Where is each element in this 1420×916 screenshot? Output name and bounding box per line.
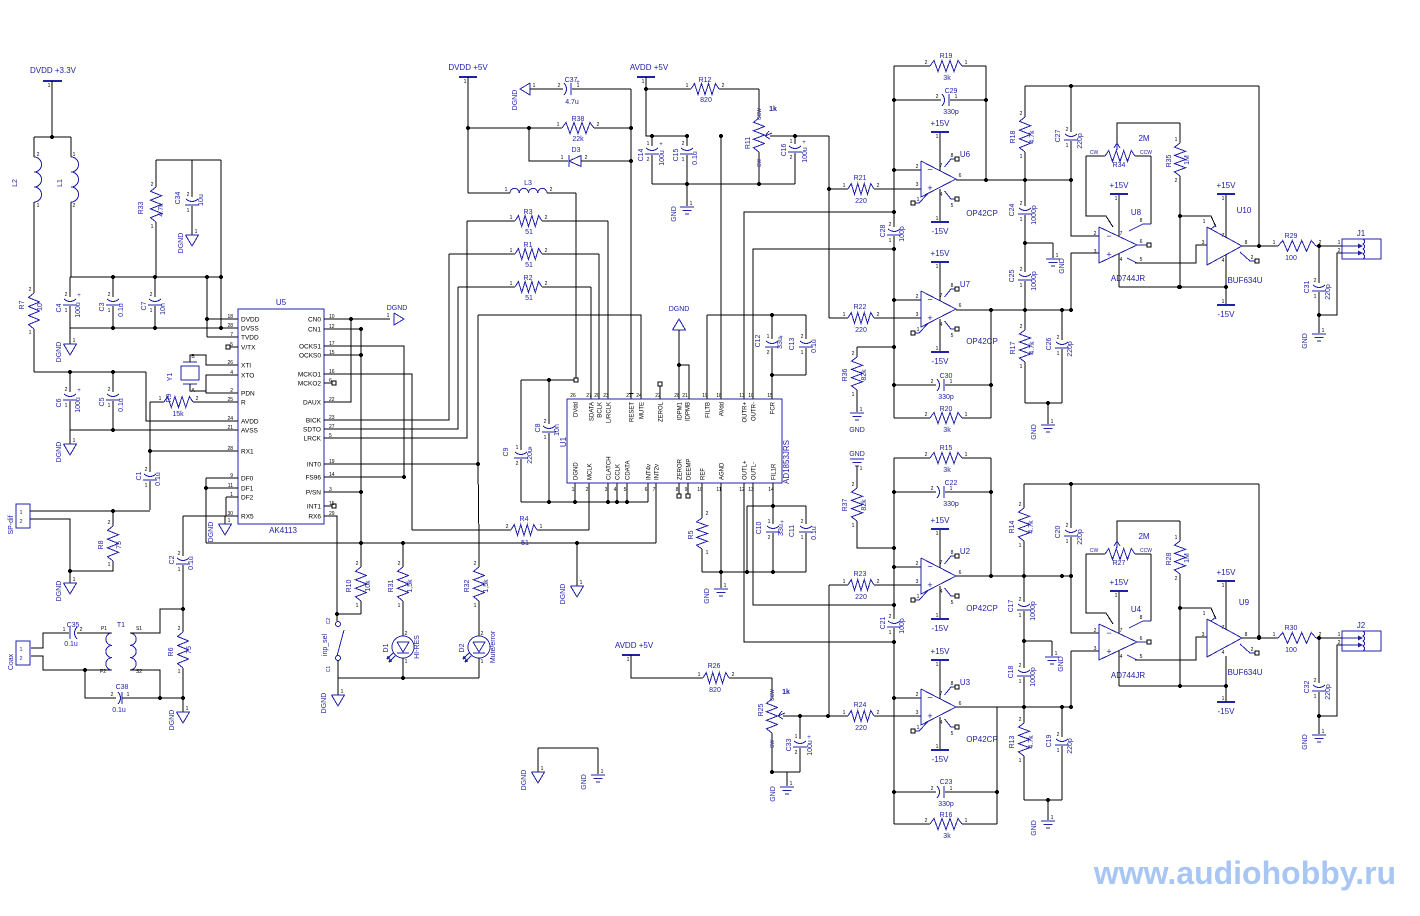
svg-text:AVSS: AVSS <box>241 428 259 435</box>
svg-text:2: 2 <box>889 614 892 620</box>
svg-text:BICK: BICK <box>306 418 322 425</box>
svg-text:AD1853JRS: AD1853JRS <box>782 440 791 484</box>
svg-text:L/RCLK: L/RCLK <box>607 402 613 423</box>
wire wiper to R35 <box>1117 123 1180 143</box>
svg-text:Coax: Coax <box>8 653 15 670</box>
wire U6 -in <box>894 169 921 171</box>
capacitor C17 <box>1023 576 1025 602</box>
svg-text:1: 1 <box>790 781 793 787</box>
svg-text:+: + <box>802 140 806 146</box>
svg-text:1: 1 <box>187 208 190 214</box>
svg-text:2: 2 <box>550 187 553 193</box>
svg-text:820: 820 <box>709 687 721 694</box>
wire bus PLL filter <box>156 159 221 161</box>
wire BW pin U9 <box>1180 608 1216 619</box>
svg-text:R34: R34 <box>1113 162 1126 169</box>
svg-text:GND: GND <box>1302 734 1309 750</box>
svg-text:+: + <box>77 388 81 394</box>
svg-text:GND: GND <box>704 588 711 604</box>
svg-text:+: + <box>1106 250 1111 260</box>
svg-text:1: 1 <box>1273 240 1276 246</box>
svg-text:1: 1 <box>510 215 513 221</box>
svg-text:+: + <box>807 735 811 741</box>
capacitor C38 <box>85 670 116 698</box>
wire IDPMB <box>679 365 689 399</box>
svg-text:1: 1 <box>936 613 939 619</box>
wire <box>220 160 222 328</box>
svg-text:1000p: 1000p <box>1030 667 1037 687</box>
svg-text:DEEMP: DEEMP <box>687 459 693 480</box>
wire mode select column <box>360 329 362 567</box>
svg-text:2: 2 <box>877 710 880 716</box>
svg-text:CW: CW <box>1090 548 1099 554</box>
resistor R2 <box>458 286 515 288</box>
svg-text:1: 1 <box>965 452 968 458</box>
svg-text:DAUX: DAUX <box>303 400 322 407</box>
svg-text:2: 2 <box>801 519 804 525</box>
potentiometer R34 <box>1086 155 1105 157</box>
resistor R28 <box>1179 521 1181 541</box>
resistor R8 <box>112 511 114 526</box>
resistor R5 <box>701 483 703 518</box>
svg-text:1: 1 <box>843 710 846 716</box>
svg-text:Mute/error: Mute/error <box>490 630 497 663</box>
svg-text:33u: 33u <box>778 524 785 536</box>
svg-text:4: 4 <box>1120 257 1123 263</box>
power -15V <box>1225 264 1227 305</box>
svg-text:1: 1 <box>37 203 40 209</box>
svg-text:2: 2 <box>889 222 892 228</box>
wire secondary S2 <box>130 670 160 698</box>
svg-text:1: 1 <box>580 580 583 586</box>
resistor R18 <box>1024 86 1026 117</box>
inductor L1 <box>70 137 72 157</box>
svg-text:J2: J2 <box>1357 621 1366 630</box>
svg-text:1: 1 <box>73 577 76 583</box>
ground GND <box>1024 640 1052 642</box>
wire MCLK column <box>588 483 590 530</box>
wire secondary S1 <box>130 609 183 633</box>
wire J1 pin2 <box>1319 253 1342 315</box>
wire ground bus <box>652 183 795 185</box>
svg-text:CCW: CCW <box>1140 548 1152 554</box>
svg-text:+: + <box>927 580 932 590</box>
svg-text:2: 2 <box>1020 267 1023 273</box>
svg-text:2: 2 <box>516 461 519 467</box>
svg-text:RESET: RESET <box>630 402 636 422</box>
svg-text:2: 2 <box>852 351 855 357</box>
svg-text:R24: R24 <box>854 702 867 709</box>
svg-text:2: 2 <box>145 467 148 473</box>
svg-text:R33: R33 <box>138 201 145 214</box>
svg-text:2: 2 <box>108 387 111 393</box>
wire <box>990 310 992 418</box>
svg-text:2: 2 <box>544 419 547 425</box>
svg-text:R3: R3 <box>524 209 533 216</box>
wire FILTB <box>706 315 708 399</box>
svg-text:1: 1 <box>1019 679 1022 685</box>
svg-text:100u: 100u <box>659 150 666 166</box>
svg-text:1: 1 <box>706 550 709 556</box>
svg-text:15k: 15k <box>172 411 184 418</box>
wire RX5 <box>183 515 238 517</box>
capacitor C11 <box>805 506 807 524</box>
svg-text:D1: D1 <box>383 643 390 652</box>
svg-text:U1: U1 <box>559 436 568 447</box>
svg-text:DGND: DGND <box>208 522 215 543</box>
svg-text:R9: R9 <box>166 393 173 402</box>
svg-text:AK4113: AK4113 <box>269 526 297 535</box>
wire OCKS0 <box>324 354 361 356</box>
svg-text:-15V: -15V <box>1218 707 1236 716</box>
svg-text:10n: 10n <box>554 424 561 436</box>
svg-text:C24: C24 <box>1009 203 1016 216</box>
svg-text:CCW: CCW <box>1140 150 1152 156</box>
svg-text:1: 1 <box>481 659 484 665</box>
resistor R16 <box>894 823 930 825</box>
svg-text:3: 3 <box>1094 646 1097 652</box>
svg-text:3k: 3k <box>943 833 951 840</box>
svg-text:R31: R31 <box>388 579 395 592</box>
capacitor C7 <box>154 277 156 297</box>
svg-text:XTI: XTI <box>241 363 251 370</box>
svg-text:220u: 220u <box>527 448 534 464</box>
svg-text:1: 1 <box>860 407 863 413</box>
wire RX1 <box>150 450 238 452</box>
power +15V for U4 <box>1118 591 1120 634</box>
svg-text:R27: R27 <box>1113 560 1126 567</box>
svg-text:2: 2 <box>37 152 40 158</box>
svg-text:C17: C17 <box>1008 599 1015 612</box>
svg-text:R17: R17 <box>1010 341 1017 354</box>
svg-text:1: 1 <box>557 122 560 128</box>
wire <box>30 519 113 571</box>
svg-text:DGND: DGND <box>669 306 690 313</box>
svg-text:−: − <box>927 165 932 175</box>
svg-text:1: 1 <box>127 692 130 698</box>
op-amp U6 OP42CP <box>921 161 956 197</box>
svg-text:−: − <box>1106 628 1111 638</box>
svg-text:8: 8 <box>951 550 954 556</box>
svg-text:DGND: DGND <box>169 710 176 731</box>
resistor R22 <box>848 313 874 324</box>
svg-text:R8: R8 <box>98 540 105 549</box>
svg-text:100u: 100u <box>802 147 809 163</box>
svg-text:2M: 2M <box>1138 134 1149 143</box>
svg-text:R19: R19 <box>940 53 953 60</box>
svg-text:R32: R32 <box>464 579 471 592</box>
resistor R31 <box>402 543 404 567</box>
svg-text:R26: R26 <box>708 663 721 670</box>
svg-text:220p: 220p <box>1067 341 1074 357</box>
svg-text:1k: 1k <box>782 689 790 696</box>
svg-text:4.7k: 4.7k <box>158 203 165 217</box>
svg-text:1: 1 <box>801 350 804 356</box>
svg-text:5: 5 <box>951 333 954 339</box>
power +15V for U3 <box>939 660 941 699</box>
svg-text:2: 2 <box>1019 597 1022 603</box>
resistor R21 <box>848 184 874 195</box>
svg-text:1: 1 <box>1115 196 1118 202</box>
svg-text:1: 1 <box>1019 758 1022 764</box>
svg-text:1: 1 <box>178 669 181 675</box>
svg-text:1: 1 <box>1020 217 1023 223</box>
svg-text:22k: 22k <box>572 136 584 143</box>
svg-text:SP-dif: SP-dif <box>8 515 15 534</box>
svg-text:1: 1 <box>936 744 939 750</box>
wire ground tie <box>538 747 598 749</box>
svg-text:2: 2 <box>1175 178 1178 184</box>
svg-text:1: 1 <box>724 583 727 589</box>
svg-text:1: 1 <box>516 445 519 451</box>
capacitor C2 <box>177 558 189 561</box>
svg-text:MCLK: MCLK <box>588 463 594 480</box>
svg-text:51: 51 <box>521 540 529 547</box>
wire OUTR+ <box>744 212 894 399</box>
wire mute flag <box>478 315 641 399</box>
wire FS96 <box>324 476 404 478</box>
svg-text:6: 6 <box>959 303 962 309</box>
wire wiper to R28 <box>1117 521 1180 541</box>
inductor L3 <box>468 192 510 194</box>
ground DGND <box>337 678 339 695</box>
diode D3 <box>529 128 568 161</box>
svg-text:2: 2 <box>1020 201 1023 207</box>
svg-text:0.1u: 0.1u <box>692 151 699 165</box>
svg-text:1: 1 <box>950 786 953 792</box>
svg-text:1M: 1M <box>1184 155 1191 165</box>
svg-text:27: 27 <box>586 393 592 399</box>
svg-text:C2: C2 <box>326 618 332 625</box>
svg-text:+15V: +15V <box>931 516 951 525</box>
svg-text:D3: D3 <box>572 147 581 154</box>
wire U8 V- <box>1118 253 1120 287</box>
svg-text:C32: C32 <box>1304 680 1311 693</box>
power +15V for U2 <box>939 529 941 568</box>
svg-text:3k: 3k <box>943 467 951 474</box>
wire U3 -in <box>894 697 921 699</box>
svg-text:1: 1 <box>398 603 401 609</box>
svg-text:1: 1 <box>29 330 32 336</box>
svg-text:R12: R12 <box>699 77 712 84</box>
power -15V for U3 <box>939 717 941 750</box>
ground DGND at RX5 <box>224 516 226 524</box>
svg-text:4: 4 <box>1222 258 1225 264</box>
svg-text:GND: GND <box>581 774 588 790</box>
svg-text:7: 7 <box>1120 231 1123 237</box>
potentiometer R27 <box>1086 553 1105 555</box>
svg-text:R5: R5 <box>688 530 695 539</box>
svg-text:R1: R1 <box>524 242 533 249</box>
svg-text:FS96: FS96 <box>305 475 321 482</box>
svg-text:1000p: 1000p <box>1030 601 1037 621</box>
resistor R15 <box>894 457 930 459</box>
svg-text:1: 1 <box>936 134 939 140</box>
svg-text:1: 1 <box>544 435 547 441</box>
svg-text:INT4v: INT4v <box>647 464 653 480</box>
wire AGND <box>720 483 722 572</box>
wire inverting column top <box>893 66 895 227</box>
svg-text:1: 1 <box>1115 593 1118 599</box>
op-amp U2 OP42CP <box>921 558 956 594</box>
svg-text:AVdd: AVdd <box>720 402 726 416</box>
svg-text:6: 6 <box>645 487 648 493</box>
svg-text:DGND: DGND <box>560 584 567 605</box>
power +15V for U9 <box>1225 581 1227 629</box>
svg-text:1: 1 <box>1056 253 1059 259</box>
svg-text:1: 1 <box>1051 419 1054 425</box>
svg-text:CCLK: CCLK <box>616 464 622 480</box>
resistor R1 <box>449 253 515 255</box>
capacitor C14 <box>651 136 653 146</box>
capacitor C20 <box>1070 484 1072 528</box>
svg-text:7: 7 <box>1222 625 1225 631</box>
svg-text:7: 7 <box>230 332 233 338</box>
wire <box>772 771 800 773</box>
svg-text:2: 2 <box>80 627 83 633</box>
resistor R13 <box>1023 707 1025 723</box>
svg-text:DF0: DF0 <box>241 476 254 483</box>
svg-text:2: 2 <box>925 412 928 418</box>
svg-text:1: 1 <box>1322 729 1325 735</box>
wire pins to ground bus <box>574 483 576 502</box>
ground DGND at CN0 <box>394 313 404 325</box>
svg-text:C9: C9 <box>503 447 510 456</box>
wire DAUX <box>324 319 351 402</box>
svg-text:AVDD +5V: AVDD +5V <box>615 641 654 650</box>
svg-text:1: 1 <box>768 519 771 525</box>
wire PDN <box>206 391 238 393</box>
svg-text:1: 1 <box>63 627 66 633</box>
svg-text:220p: 220p <box>1067 738 1074 754</box>
svg-text:3: 3 <box>1202 240 1205 246</box>
capacitor C6 <box>69 372 71 392</box>
svg-text:4.7u: 4.7u <box>565 99 579 106</box>
svg-text:2: 2 <box>1019 502 1022 508</box>
svg-text:2: 2 <box>706 511 709 517</box>
svg-text:100u: 100u <box>75 302 82 318</box>
svg-text:2: 2 <box>801 334 804 340</box>
svg-text:1: 1 <box>464 79 467 85</box>
svg-text:GND: GND <box>1031 424 1038 440</box>
svg-text:C11: C11 <box>789 525 796 537</box>
svg-text:1: 1 <box>950 486 953 492</box>
svg-text:OUTR-: OUTR- <box>752 402 758 421</box>
svg-text:+15V: +15V <box>1217 181 1237 190</box>
svg-text:1: 1 <box>1066 143 1069 149</box>
svg-text:1: 1 <box>19 647 22 653</box>
capacitor C19 <box>1061 707 1063 737</box>
resistor R36 <box>857 346 894 348</box>
svg-text:8: 8 <box>676 487 679 493</box>
svg-text:1: 1 <box>65 308 68 314</box>
svg-text:C21: C21 <box>880 616 887 629</box>
svg-text:2: 2 <box>19 656 22 662</box>
svg-text:2: 2 <box>29 287 32 293</box>
svg-text:C7: C7 <box>141 301 148 310</box>
svg-text:2: 2 <box>405 631 408 637</box>
wire DF0/DF1 to bus <box>205 478 207 543</box>
svg-text:1: 1 <box>917 327 920 333</box>
svg-text:1,5k: 1,5k <box>483 579 490 593</box>
svg-text:330p: 330p <box>943 501 959 508</box>
svg-text:DGND: DGND <box>56 342 63 363</box>
svg-text:OUTL+: OUTL+ <box>743 460 749 480</box>
LED D1 HI-RES <box>392 636 414 658</box>
svg-text:8: 8 <box>951 283 954 289</box>
svg-text:2: 2 <box>1057 335 1060 341</box>
svg-text:2: 2 <box>1251 255 1254 261</box>
svg-text:1: 1 <box>965 412 968 418</box>
svg-text:1: 1 <box>1314 294 1317 300</box>
svg-text:DF1: DF1 <box>241 486 254 493</box>
svg-text:C4: C4 <box>56 303 63 312</box>
svg-text:2: 2 <box>877 183 880 189</box>
svg-text:3: 3 <box>605 487 608 493</box>
svg-text:BUF634U: BUF634U <box>1227 276 1262 285</box>
resistor R10 <box>360 543 362 567</box>
svg-text:OP42CP: OP42CP <box>966 735 998 744</box>
wire C2 node <box>182 516 184 556</box>
svg-text:1: 1 <box>150 308 153 314</box>
svg-text:33u: 33u <box>777 337 784 349</box>
svg-text:V/TX: V/TX <box>241 345 256 352</box>
svg-text:1: 1 <box>843 579 846 585</box>
resistor R7 <box>33 329 35 372</box>
capacitor C29 <box>894 99 941 101</box>
svg-text:+15V: +15V <box>931 647 951 656</box>
svg-text:2: 2 <box>65 387 68 393</box>
svg-text:1: 1 <box>572 487 575 493</box>
svg-text:2: 2 <box>1094 628 1097 634</box>
svg-text:L1: L1 <box>57 179 64 187</box>
svg-text:5: 5 <box>951 203 954 209</box>
svg-text:AVDD +5V: AVDD +5V <box>630 63 669 72</box>
svg-text:2: 2 <box>916 294 919 300</box>
svg-text:100p: 100p <box>899 618 906 634</box>
wire ground bus <box>521 501 648 503</box>
wire feedback bus top <box>1025 85 1259 87</box>
wire RX6 <box>324 516 337 621</box>
svg-text:U2: U2 <box>960 547 971 556</box>
svg-text:330p: 330p <box>943 109 959 116</box>
svg-text:20: 20 <box>594 393 600 399</box>
svg-text:1: 1 <box>1055 651 1058 657</box>
svg-text:ZEROR: ZEROR <box>678 458 684 480</box>
wire bus <box>772 374 806 376</box>
svg-text:DVdd: DVdd <box>574 402 580 417</box>
svg-text:1: 1 <box>642 79 645 85</box>
wire wiper <box>770 135 829 137</box>
ground DGND arrow <box>520 83 530 95</box>
wire inverting column bottom <box>893 458 895 619</box>
svg-text:2: 2 <box>558 83 561 89</box>
wire negative rail <box>1119 286 1226 288</box>
wire trim column left <box>828 136 830 318</box>
inductor L2 <box>33 137 35 157</box>
svg-text:5: 5 <box>624 487 627 493</box>
svg-text:2: 2 <box>1066 523 1069 529</box>
svg-text:2: 2 <box>931 379 934 385</box>
svg-text:0.1u: 0.1u <box>64 641 78 648</box>
resistor R23 <box>848 580 874 591</box>
capacitor C33 <box>799 716 801 739</box>
wire R27 right to pin8 <box>1150 554 1152 621</box>
resistor R32 <box>478 543 480 567</box>
wire DVdd decouple <box>521 379 574 381</box>
wire <box>467 77 469 193</box>
svg-text:C1: C1 <box>326 666 332 673</box>
